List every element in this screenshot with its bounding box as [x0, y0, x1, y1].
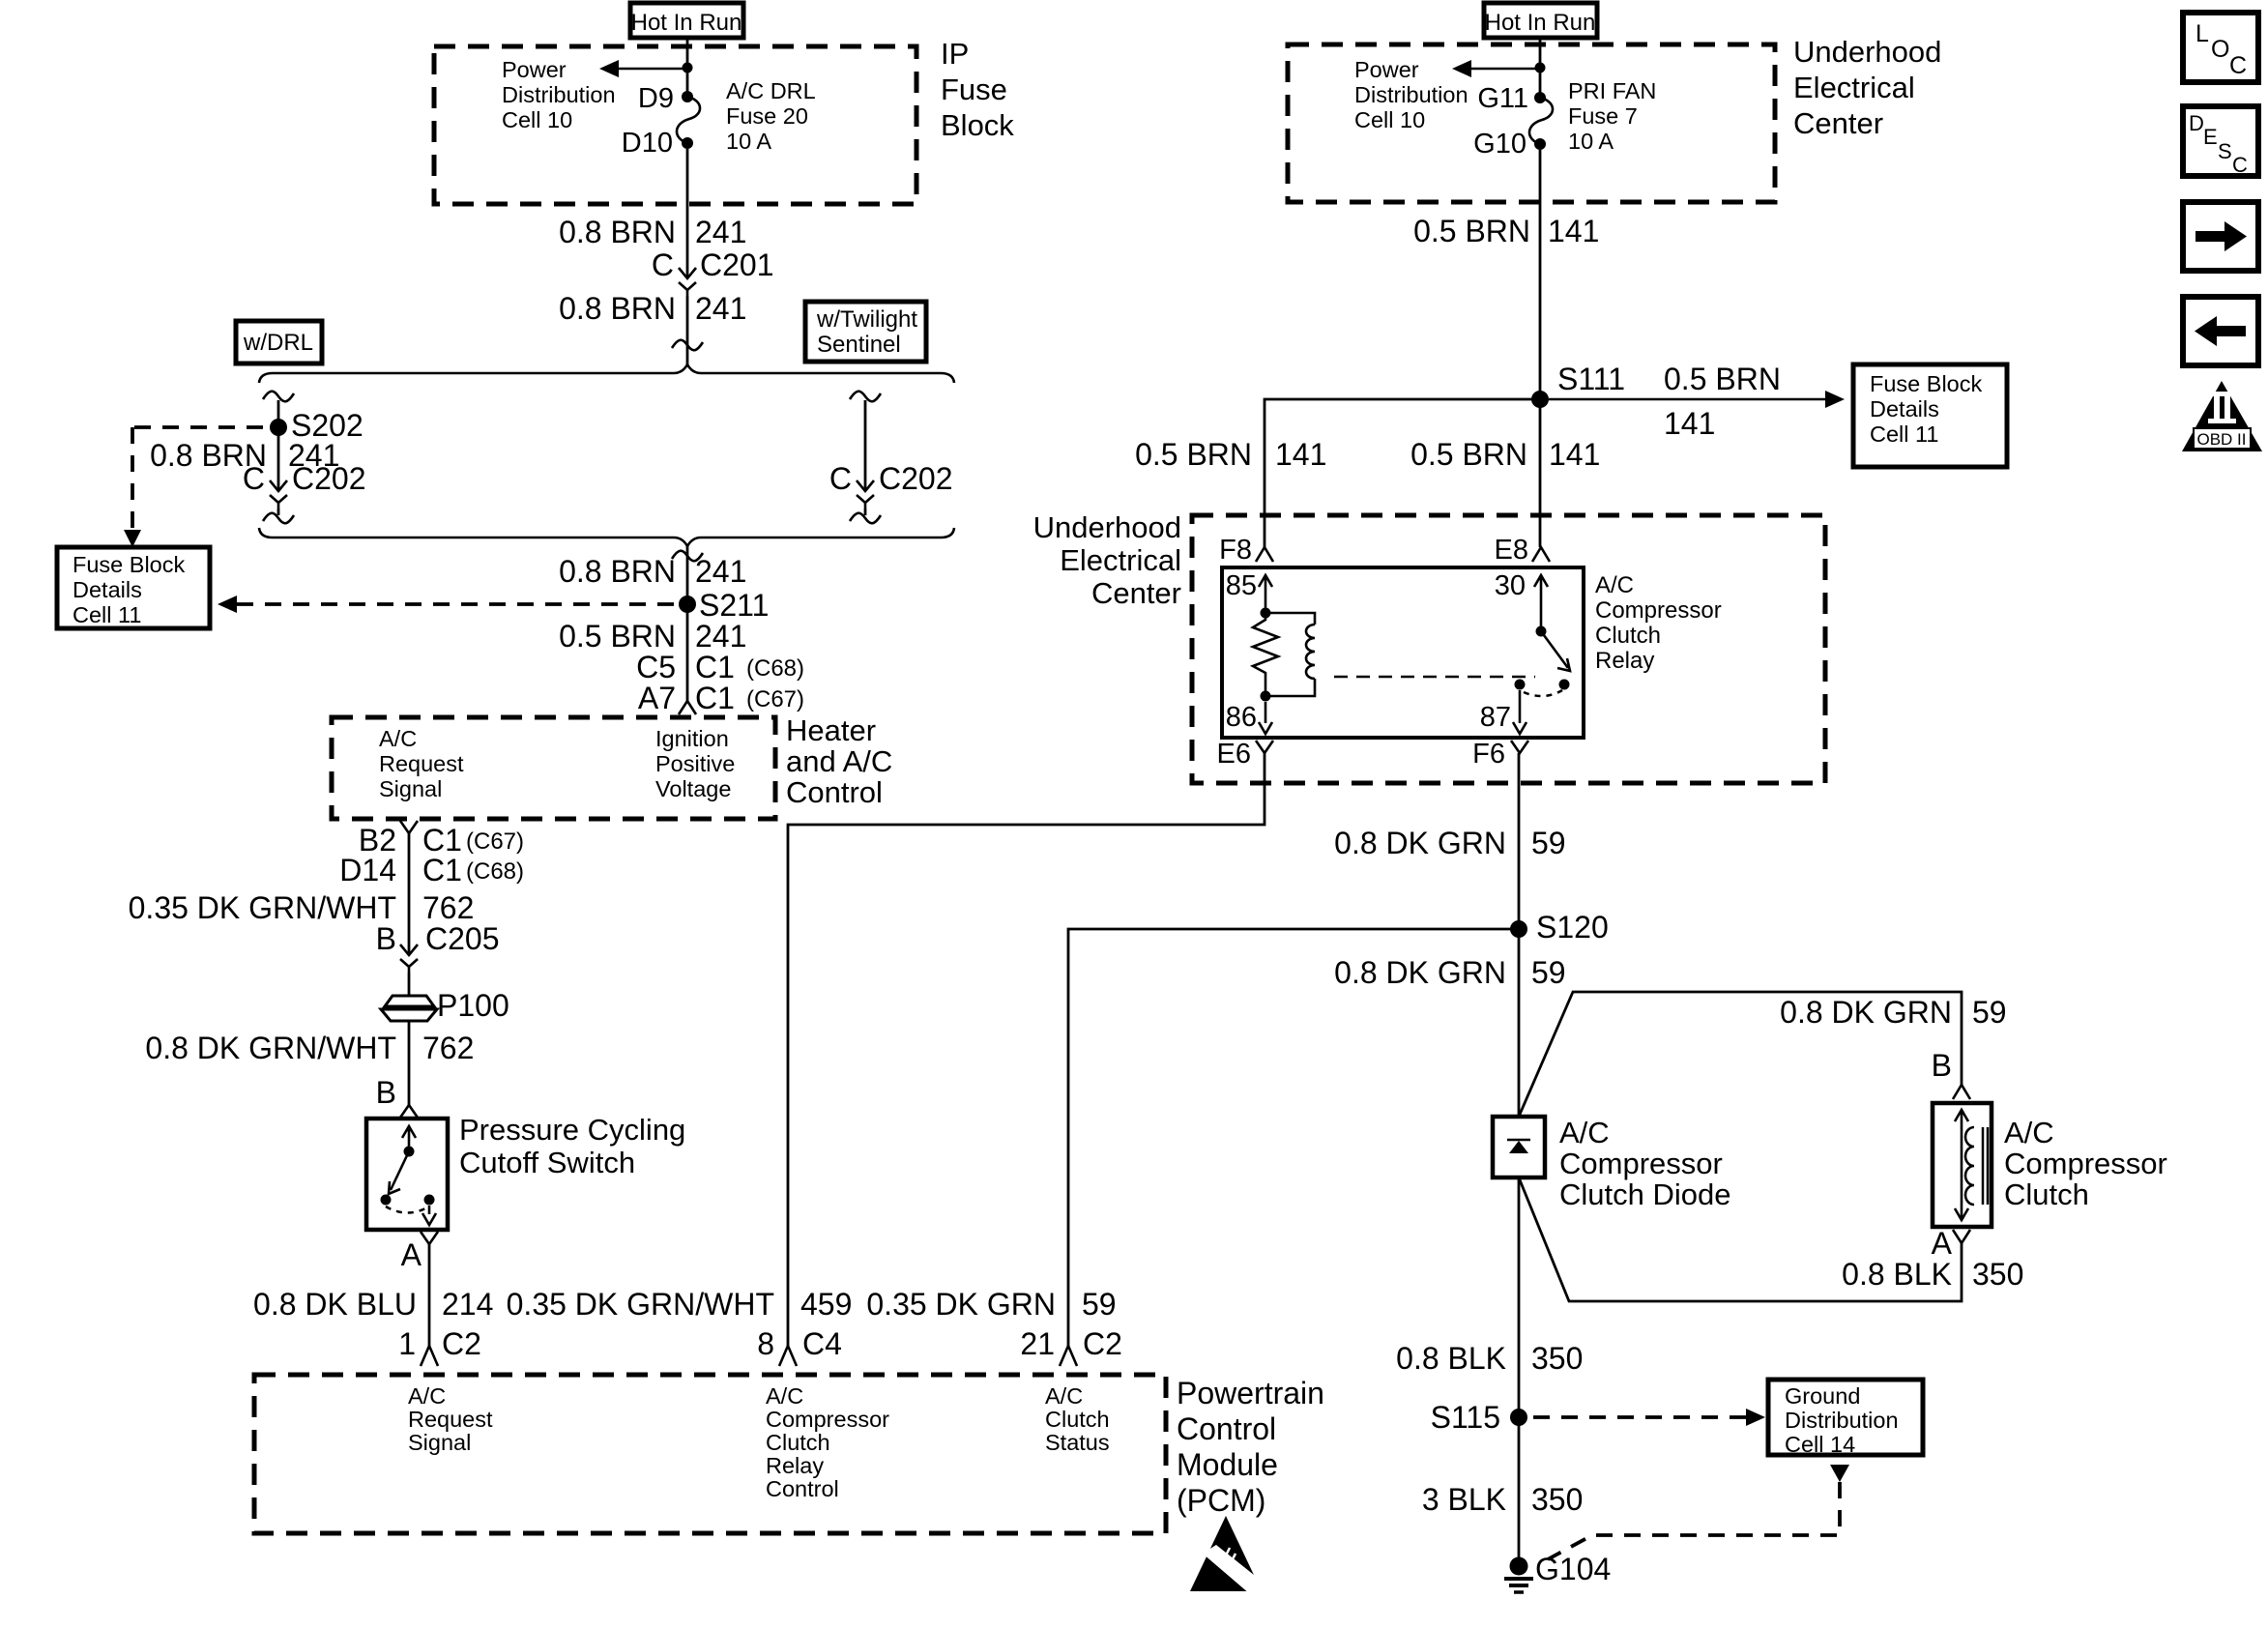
wire: branch to clutch terminal B [1519, 992, 1962, 1117]
svg-text:C: C [2229, 52, 2247, 79]
dashed route to G104 [1548, 1482, 1840, 1559]
relay arrow up at 30 [1534, 575, 1548, 628]
svg-text:214: 214 [442, 1287, 493, 1322]
dashed pointer from S202 to fuse block details [132, 427, 263, 531]
svg-text:85: 85 [1226, 570, 1257, 601]
break squiggle below right C202 [850, 513, 881, 524]
Underhood Electrical Center dashed box (relay) [1192, 515, 1825, 783]
svg-text:59: 59 [1531, 955, 1566, 990]
svg-text:A: A [1932, 1226, 1953, 1261]
splice S115 [1510, 1409, 1527, 1426]
wire: w/Twilight branch [864, 400, 867, 491]
svg-text:1: 1 [398, 1326, 416, 1361]
svg-text:w/DRL: w/DRL [243, 330, 313, 356]
connector C201 [679, 268, 696, 278]
svg-text:241: 241 [695, 291, 746, 326]
svg-text:87: 87 [1480, 702, 1511, 733]
fuse F7 terminal G10 [1534, 138, 1546, 150]
svg-text:0.5 BRN: 0.5 BRN [1135, 437, 1252, 472]
svg-text:0.8 BRN: 0.8 BRN [559, 554, 676, 589]
break squiggle [672, 340, 703, 351]
svg-text:C1: C1 [695, 681, 735, 715]
wire: switch to PCM pin 1 [428, 1244, 431, 1346]
svg-text:C2: C2 [1083, 1326, 1122, 1361]
svg-text:E8: E8 [1495, 535, 1528, 566]
svg-text:C4: C4 [802, 1326, 842, 1361]
svg-text:B: B [1932, 1048, 1952, 1083]
svg-text:Hot In Run: Hot In Run [631, 10, 742, 36]
option box: w/DRL [236, 321, 322, 363]
switch arrow down (terminal A side) [422, 1206, 436, 1225]
component box: Powertrain Control Module (dashed) [254, 1375, 1166, 1533]
arrowhead left (to Power Distribution right) [1452, 60, 1471, 77]
node: power branch junction [683, 63, 693, 73]
switch contact dot left [381, 1195, 392, 1206]
relay contact dot right [1559, 680, 1570, 690]
svg-text:141: 141 [1548, 214, 1599, 248]
clutch core lines [1983, 1127, 1988, 1205]
detail box: Ground Distribution Cell 14 [1768, 1380, 1923, 1457]
wire: clutch A return to diode [1519, 1177, 1962, 1301]
wire: branch to power distribution [617, 68, 687, 71]
svg-text:0.5 BRN: 0.5 BRN [1413, 214, 1530, 248]
svg-text:C1: C1 [695, 650, 735, 684]
svg-text:S115: S115 [1431, 1400, 1500, 1435]
svg-text:B: B [376, 921, 396, 956]
margin icon: DESC box [2183, 106, 2258, 177]
svg-text:0.8 BLK: 0.8 BLK [1842, 1257, 1952, 1292]
grommet P100 [385, 996, 434, 1006]
svg-text:C202: C202 [292, 461, 366, 496]
svg-text:OBD II: OBD II [2196, 430, 2246, 449]
switch blade with arrowhead [389, 1151, 409, 1194]
entry chevron into pressure switch [400, 1105, 418, 1118]
IP Fuse Block dashed box [434, 46, 916, 204]
svg-text:G104: G104 [1535, 1552, 1611, 1586]
switch arrow up (terminal B side) [402, 1126, 416, 1151]
svg-text:0.8 DK GRN: 0.8 DK GRN [1334, 826, 1506, 860]
ESD sensitivity symbol [1190, 1516, 1268, 1600]
relay resistor [1253, 613, 1278, 696]
ground G104 [1504, 1552, 1611, 1592]
relay switch blade [1541, 631, 1570, 671]
svg-text:D: D [2189, 111, 2204, 135]
w/Twilight branch break squiggle [850, 392, 881, 402]
svg-text:C: C [829, 461, 852, 496]
dashed pointer from S115 to ground distribution [1533, 1415, 1746, 1419]
svg-text:3 BLK: 3 BLK [1422, 1482, 1506, 1517]
margin icon: forward arrow box [2183, 202, 2258, 271]
node: power branch junction [1535, 63, 1546, 73]
relay coil [1306, 625, 1315, 679]
wire: S120 branch to PCM pin 21 (clutch status) [1068, 929, 1519, 1346]
exit chevron from clutch [1953, 1230, 1970, 1243]
connector C205 [400, 945, 418, 955]
wire: F6 down to S120 [1518, 753, 1521, 1117]
break squiggle below merge [672, 551, 703, 562]
svg-text:IgnitionPositiveVoltage: IgnitionPositiveVoltage [655, 726, 735, 801]
relay dashed travel arc [1524, 690, 1562, 696]
wire: Hot In Run down to fuse [686, 38, 689, 93]
wire: P100 to pressure switch [408, 1021, 411, 1105]
w/DRL branch break squiggle [263, 392, 294, 402]
svg-text:0.8 BLK: 0.8 BLK [1396, 1341, 1506, 1376]
relay switch pivot dot [1536, 626, 1547, 637]
connector C202 (w/DRL side) [270, 480, 287, 491]
wire: w/DRL branch [277, 400, 280, 491]
svg-text:C: C [2232, 153, 2248, 177]
svg-text:0.5 BRN: 0.5 BRN [1410, 437, 1527, 472]
power feed box: Hot In Run (right) [1484, 3, 1597, 38]
component box: Heater and A/C Control (dashed) [332, 717, 775, 819]
svg-text:A7: A7 [638, 681, 676, 715]
svg-text:141: 141 [1549, 437, 1600, 472]
svg-text:0.35 DK GRN/WHT: 0.35 DK GRN/WHT [129, 890, 396, 925]
fuse F7 terminal G11 [1534, 92, 1546, 103]
svg-text:241: 241 [695, 554, 746, 589]
relay node top [1261, 608, 1271, 619]
detail box: Fuse Block Details Cell 11 (left) [57, 547, 210, 628]
clutch coil [1965, 1127, 1974, 1205]
relay box: A/C Compressor Clutch Relay [1222, 567, 1584, 738]
margin icon: LOC box [2183, 13, 2258, 82]
svg-text:Hot In Run: Hot In Run [1485, 10, 1596, 36]
svg-text:D14: D14 [339, 853, 396, 887]
svg-text:0.35 DK GRN: 0.35 DK GRN [866, 1287, 1056, 1322]
wire: D10 down to connector C201 [686, 149, 689, 278]
relay contact dot left [1515, 680, 1526, 690]
detail box: Fuse Block Details Cell 11 (right) [1853, 364, 2007, 467]
relay arrow down at 86 [1259, 702, 1272, 734]
svg-text:59: 59 [1972, 995, 2007, 1030]
svg-text:0.8 DK BLU: 0.8 DK BLU [253, 1287, 417, 1322]
svg-text:C205: C205 [425, 921, 500, 956]
svg-text:L: L [2195, 20, 2209, 47]
svg-text:(C67): (C67) [466, 829, 524, 855]
fuse F7 element [1529, 98, 1553, 144]
relay coil branch [1265, 613, 1315, 696]
entry chevron into clutch [1953, 1085, 1970, 1099]
svg-text:S111: S111 [1557, 362, 1625, 396]
splice S211 [679, 596, 696, 613]
pointer triangle below ground box [1830, 1465, 1849, 1482]
fuse F20 element [677, 97, 700, 143]
svg-text:E6: E6 [1217, 739, 1251, 770]
switch pivot dot [404, 1147, 415, 1157]
arrowhead left (S211 pointer) [218, 596, 237, 613]
svg-text:S211: S211 [699, 588, 769, 623]
svg-text:0.8 BRN: 0.8 BRN [559, 215, 676, 249]
svg-text:30: 30 [1495, 570, 1526, 601]
svg-text:0.8 BRN: 0.8 BRN [559, 291, 676, 326]
exit chevron from pressure switch [421, 1232, 438, 1244]
svg-text:241: 241 [695, 215, 746, 249]
svg-text:0.8 DK GRN: 0.8 DK GRN [1334, 955, 1506, 990]
svg-text:A: A [401, 1237, 422, 1272]
arrowhead down (to Fuse Block Details) [124, 530, 141, 547]
svg-text:D10: D10 [622, 128, 673, 159]
svg-text:(C68): (C68) [466, 858, 524, 885]
wire: branch to power distribution [1469, 68, 1540, 71]
svg-text:C202: C202 [879, 461, 953, 496]
svg-text:141: 141 [1664, 406, 1715, 441]
splice S111 [1531, 391, 1549, 408]
fuse F20 terminal D9 [682, 91, 693, 102]
switch dashed travel arc [386, 1206, 429, 1213]
svg-text:0.8 DK GRN: 0.8 DK GRN [1780, 995, 1952, 1030]
option box: w/Twilight Sentinel [805, 302, 926, 362]
margin icon: OBD II triangle [2182, 381, 2262, 451]
relay arrow up at 85 [1259, 575, 1272, 613]
svg-text:8: 8 [757, 1326, 774, 1361]
fuse F20 terminal D10 [682, 137, 693, 149]
wire: branch left from S111 to relay F8 [1265, 399, 1540, 547]
relay node bottom [1261, 691, 1271, 702]
option brace (top) [259, 364, 954, 383]
clutch double arrow [1955, 1110, 1968, 1220]
svg-text:459: 459 [800, 1287, 852, 1322]
svg-text:59: 59 [1082, 1287, 1117, 1322]
dashed pointer from S211 to fuse block details [237, 602, 674, 606]
svg-text:350: 350 [1531, 1341, 1583, 1376]
arrowhead left (to Power Distribution) [599, 60, 619, 77]
exit chevron from heater control [400, 821, 418, 833]
margin icon: back arrow box [2183, 297, 2258, 365]
wire: merge to S211 [686, 546, 689, 701]
relay mechanical link (dashed) [1334, 676, 1535, 679]
option brace (bottom) [259, 528, 954, 546]
svg-text:G10: G10 [1473, 129, 1527, 160]
svg-text:0.35 DK GRN/WHT: 0.35 DK GRN/WHT [507, 1287, 774, 1322]
wire: diode to S115 [1518, 1177, 1521, 1558]
connector C202 (w/Twilight side) [857, 480, 874, 491]
svg-text:141: 141 [1275, 437, 1326, 472]
power feed box: Hot In Run (left) [630, 3, 743, 38]
wire: G10 down to S111 [1539, 150, 1542, 547]
wire: C205 to P100 [408, 973, 411, 996]
splice S202 [270, 419, 287, 436]
switch contact dot right [424, 1195, 435, 1206]
splice S120 [1510, 920, 1527, 938]
wire: branch right from S111 [1549, 398, 1826, 401]
component box: A/C Compressor Clutch Diode [1493, 1117, 1545, 1177]
arrowhead right (to Ground Distribution) [1746, 1409, 1765, 1426]
svg-text:O: O [2211, 36, 2229, 63]
wire: Hot In Run down to fuse [1539, 38, 1542, 93]
svg-text:86: 86 [1226, 702, 1257, 733]
svg-text:762: 762 [422, 890, 474, 925]
component box: A/C Compressor Clutch [1933, 1103, 1992, 1227]
svg-text:350: 350 [1531, 1482, 1583, 1517]
svg-text:F6: F6 [1472, 739, 1505, 770]
pin E6 [1256, 741, 1273, 753]
svg-text:C1: C1 [422, 853, 462, 887]
wire: E6 to PCM pin 8 (relay control) [788, 753, 1265, 1346]
svg-text:D9: D9 [638, 83, 674, 114]
wire: C201 to option brace [686, 296, 689, 365]
svg-text:762: 762 [422, 1031, 474, 1065]
svg-text:P100: P100 [437, 988, 509, 1023]
wire: heater to C205 [408, 833, 411, 955]
arrowhead right (to Fuse Block Details) [1825, 391, 1845, 408]
svg-text:B: B [376, 1075, 396, 1110]
svg-text:350: 350 [1972, 1257, 2023, 1292]
svg-text:E: E [2203, 125, 2218, 149]
component box: Pressure Cycling Cutoff Switch [366, 1119, 448, 1230]
svg-text:S: S [2218, 139, 2232, 163]
svg-text:241: 241 [695, 619, 746, 654]
entry chevron into heater control [679, 701, 696, 714]
svg-text:21: 21 [1020, 1326, 1055, 1361]
diode symbol [1507, 1139, 1530, 1142]
Underhood Electrical Center dashed box (top) [1288, 44, 1775, 202]
svg-text:0.8 DK GRN/WHT: 0.8 DK GRN/WHT [145, 1031, 396, 1065]
svg-text:F8: F8 [1219, 535, 1252, 566]
svg-text:C201: C201 [700, 247, 774, 282]
break squiggle below C202 [263, 513, 294, 524]
svg-text:G11: G11 [1477, 83, 1528, 114]
pin F6 [1511, 741, 1528, 753]
svg-text:0.5 BRN: 0.5 BRN [559, 619, 676, 654]
svg-text:(C67): (C67) [746, 686, 804, 712]
svg-text:C2: C2 [442, 1326, 481, 1361]
svg-text:59: 59 [1531, 826, 1566, 860]
svg-text:S120: S120 [1536, 910, 1609, 945]
svg-text:C5: C5 [636, 650, 676, 684]
svg-text:C: C [243, 461, 265, 496]
relay arrow down at 87 [1513, 690, 1527, 734]
svg-text:(C68): (C68) [746, 655, 804, 682]
svg-text:C: C [652, 247, 674, 282]
svg-text:0.5 BRN: 0.5 BRN [1664, 362, 1781, 396]
